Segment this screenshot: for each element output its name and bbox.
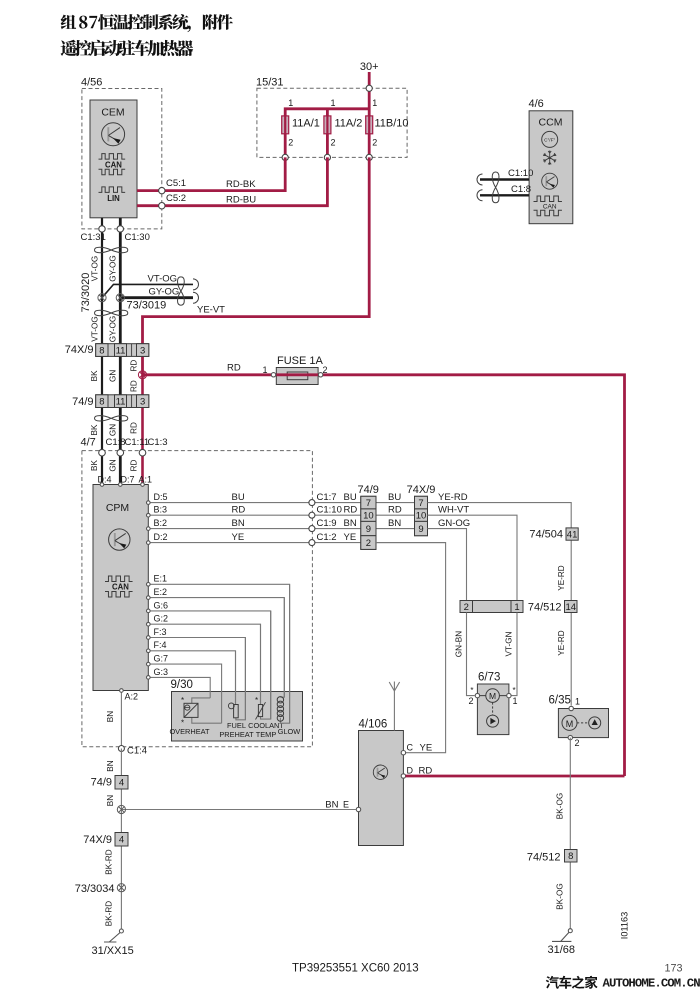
CCM CAN symbol xyxy=(534,196,562,202)
svg-text:G:7: G:7 xyxy=(154,654,169,664)
node C1:4 xyxy=(118,746,124,752)
wire sensor G:7 xyxy=(148,664,221,723)
svg-text:A:1: A:1 xyxy=(139,475,153,485)
wire BN signal from CPM pin B:2 xyxy=(148,528,414,530)
svg-text:C1:8: C1:8 xyxy=(511,184,531,195)
svg-text:4/56: 4/56 xyxy=(81,77,102,89)
svg-text:15/31: 15/31 xyxy=(256,77,284,89)
svg-text:BN: BN xyxy=(106,795,115,806)
svg-text:C1:7: C1:7 xyxy=(317,492,337,503)
svg-text:FUEL: FUEL xyxy=(227,721,246,730)
node C1:3 xyxy=(139,449,146,456)
svg-text:F:4: F:4 xyxy=(154,640,167,650)
svg-text:4/7: 4/7 xyxy=(81,437,96,449)
svg-text:1: 1 xyxy=(513,696,518,706)
svg-text:BN: BN xyxy=(325,800,338,811)
wire GY-OG branch xyxy=(120,296,193,299)
splice BN xyxy=(117,805,125,813)
svg-text:D:4: D:4 xyxy=(98,475,112,485)
wire BK-OG chain xyxy=(569,738,571,931)
node C5:2 xyxy=(159,203,165,209)
fuse 11A/2 xyxy=(324,116,331,134)
twist pair upper xyxy=(95,247,128,252)
CEM LIN symbol xyxy=(99,187,126,193)
svg-text:9/30: 9/30 xyxy=(171,679,193,691)
svg-text:C: C xyxy=(407,743,414,753)
svg-text:1: 1 xyxy=(262,365,267,375)
svg-text:11A/2: 11A/2 xyxy=(335,118,363,130)
svg-text:RD: RD xyxy=(388,505,402,516)
svg-text:E:2: E:2 xyxy=(154,587,168,597)
svg-text:CCM: CCM xyxy=(539,117,563,129)
svg-text:9: 9 xyxy=(366,524,371,535)
svg-text:C1:8: C1:8 xyxy=(106,437,126,448)
title line 2 xyxy=(61,40,77,56)
svg-text:GY-OG: GY-OG xyxy=(109,316,118,343)
svg-text:11B/10: 11B/10 xyxy=(375,118,409,130)
pump 6/73 pins xyxy=(475,693,479,697)
svg-text:2: 2 xyxy=(575,738,580,748)
svg-text:1: 1 xyxy=(288,98,293,108)
svg-text:C5:2: C5:2 xyxy=(166,193,186,204)
connector 74/512 pin 14 xyxy=(565,601,578,613)
glow element xyxy=(280,598,284,698)
twist pair bottom xyxy=(95,416,128,421)
svg-text:C1:10: C1:10 xyxy=(317,505,342,516)
wire BN to 4/106 E xyxy=(121,809,356,811)
node C1:9 xyxy=(309,526,315,532)
wire CCM twisted pair C1:10 xyxy=(480,178,529,180)
overheat switch xyxy=(192,698,210,703)
svg-text:M: M xyxy=(566,719,574,729)
node C1:8 xyxy=(99,449,106,456)
svg-text:2: 2 xyxy=(366,538,371,549)
connector box 4/56 dashed xyxy=(82,89,162,229)
svg-text:7: 7 xyxy=(366,498,371,509)
svg-text:D: D xyxy=(407,766,414,776)
svg-text:C1:9: C1:9 xyxy=(317,518,337,529)
ground 31/XX15 xyxy=(119,929,123,933)
CCM twisted pair twist xyxy=(492,172,499,203)
svg-text:YE-RD: YE-RD xyxy=(557,630,566,656)
svg-text:FUSE 1A: FUSE 1A xyxy=(277,355,324,367)
svg-text:G:2: G:2 xyxy=(154,614,169,624)
CPM top pins xyxy=(100,483,104,487)
connector 74/512 bar xyxy=(460,601,523,613)
svg-text:2: 2 xyxy=(468,696,473,706)
wire fuse top rail xyxy=(285,109,369,158)
wire RD-BK xyxy=(137,157,285,190)
svg-text:2: 2 xyxy=(288,138,293,148)
wire YE-RD xyxy=(428,503,572,706)
wire sensor F:4 xyxy=(148,651,235,705)
wire WH-VT xyxy=(428,515,518,600)
node C5:1 xyxy=(159,187,165,193)
svg-text:F:3: F:3 xyxy=(154,627,167,637)
svg-text:74/9: 74/9 xyxy=(72,396,93,408)
svg-text:C1:31: C1:31 xyxy=(81,232,106,243)
svg-text:I01163: I01163 xyxy=(620,912,630,939)
4/106 pin C xyxy=(401,751,405,755)
svg-text:CAN: CAN xyxy=(105,161,122,170)
svg-text:4: 4 xyxy=(119,835,124,846)
svg-text:BN: BN xyxy=(232,518,245,529)
fuse 11A/1 xyxy=(282,116,289,134)
svg-text:BK: BK xyxy=(90,460,99,471)
svg-text:31/XX15: 31/XX15 xyxy=(92,945,134,957)
wire YE signal to 4/106 xyxy=(376,543,446,753)
svg-text:RD: RD xyxy=(130,380,139,392)
svg-text:RD: RD xyxy=(130,360,139,372)
node C1:7 xyxy=(309,500,315,506)
control module CEM xyxy=(90,100,137,218)
svg-text:CAN: CAN xyxy=(543,203,557,210)
wire 30+ feed xyxy=(368,72,371,157)
svg-text:YE: YE xyxy=(232,532,245,543)
svg-text:C5:1: C5:1 xyxy=(166,178,186,189)
svg-text:CPM: CPM xyxy=(106,502,129,514)
svg-text:BK-RD: BK-RD xyxy=(105,901,114,927)
CEM transistor symbol xyxy=(102,123,125,146)
svg-text:10: 10 xyxy=(363,511,374,522)
splice fuse feed xyxy=(138,371,146,379)
svg-text:*: * xyxy=(513,686,516,695)
svg-text:*: * xyxy=(181,696,184,705)
svg-text:2: 2 xyxy=(372,138,377,148)
wire RD to 4/106 D xyxy=(406,775,625,778)
svg-text:RD-BU: RD-BU xyxy=(226,195,256,206)
svg-text:4/106: 4/106 xyxy=(359,719,388,731)
svg-text:C1:4: C1:4 xyxy=(127,746,147,757)
svg-text:VT-OG: VT-OG xyxy=(148,274,178,285)
svg-text:D:5: D:5 xyxy=(154,492,168,502)
svg-text:RD: RD xyxy=(232,505,246,516)
svg-text:74/512: 74/512 xyxy=(527,852,561,864)
svg-text:8: 8 xyxy=(99,345,104,356)
svg-text:GN: GN xyxy=(109,424,118,436)
svg-text:D:2: D:2 xyxy=(154,532,168,542)
svg-text:3: 3 xyxy=(140,397,145,408)
svg-text:*: * xyxy=(255,696,258,705)
wire RD signal from CPM pin B:3 xyxy=(148,514,414,516)
splice 73/3020 xyxy=(98,294,106,302)
node C1:30 xyxy=(117,226,123,232)
svg-text:2: 2 xyxy=(323,365,328,375)
fuse 11B/10 xyxy=(366,116,373,134)
svg-text:B:2: B:2 xyxy=(154,518,168,528)
wire GN-OG xyxy=(428,529,467,601)
svg-text:GLOW: GLOW xyxy=(278,727,301,736)
svg-text:GN-BN: GN-BN xyxy=(455,631,464,657)
svg-text:4: 4 xyxy=(119,778,124,789)
node C1:2 xyxy=(309,540,315,546)
svg-text:RD: RD xyxy=(130,460,139,472)
svg-text:YE-RD: YE-RD xyxy=(438,492,468,503)
svg-text:G:3: G:3 xyxy=(154,667,169,677)
wire GY-OG main xyxy=(119,218,122,485)
svg-text:74X/9: 74X/9 xyxy=(65,344,94,356)
twist pair lower xyxy=(95,310,128,315)
svg-text:BU: BU xyxy=(232,492,245,503)
svg-text:AUTOHOME.COM.CN: AUTOHOME.COM.CN xyxy=(603,977,700,990)
svg-text:C1:10: C1:10 xyxy=(508,168,533,179)
svg-text:GN-OG: GN-OG xyxy=(438,518,470,529)
svg-text:GN: GN xyxy=(109,370,118,382)
branch twist xyxy=(178,277,185,305)
fuse holder 15/31 dashed box xyxy=(257,88,407,157)
wire VT-OG main xyxy=(101,218,103,485)
svg-text:11: 11 xyxy=(116,345,126,356)
svg-text:1: 1 xyxy=(575,697,580,707)
wire sensor G:2 xyxy=(148,624,260,704)
node C1:11 xyxy=(117,449,124,456)
control module CPM xyxy=(93,485,148,691)
svg-text:OVERHEAT: OVERHEAT xyxy=(169,727,210,736)
svg-text:RD: RD xyxy=(130,422,139,434)
svg-text:M: M xyxy=(489,691,496,701)
svg-text:BK-OG: BK-OG xyxy=(556,883,565,909)
svg-text:74/512: 74/512 xyxy=(528,602,562,614)
svg-text:BN: BN xyxy=(388,518,401,529)
coolant temp sensor xyxy=(260,624,262,704)
svg-text:BK-OG: BK-OG xyxy=(556,793,565,819)
wire sensor E:1 xyxy=(148,584,289,723)
svg-text:BN: BN xyxy=(344,518,357,529)
svg-text:73/3019: 73/3019 xyxy=(127,300,167,312)
svg-text:BK: BK xyxy=(90,370,99,381)
wire YE-VT xyxy=(143,157,370,374)
motor 6/35 pins xyxy=(569,706,573,710)
wire RD-BU xyxy=(137,157,327,205)
svg-text:74/504: 74/504 xyxy=(529,529,563,541)
svg-text:73/3034: 73/3034 xyxy=(75,883,115,895)
svg-text:CAN: CAN xyxy=(112,583,129,592)
svg-text:RD: RD xyxy=(344,505,358,516)
fuel preheater element xyxy=(235,651,237,705)
CCM temperature symbol xyxy=(542,131,558,147)
svg-text:74X/9: 74X/9 xyxy=(407,484,436,496)
svg-text:YE-VT: YE-VT xyxy=(197,305,225,316)
ground 31/68 xyxy=(568,929,572,933)
CPM CAN symbol xyxy=(105,576,133,582)
svg-text:74X/9: 74X/9 xyxy=(83,834,112,846)
svg-text:VT-GN: VT-GN xyxy=(505,631,514,656)
svg-text:GN: GN xyxy=(109,459,118,471)
wire sensor G:3 xyxy=(148,677,210,698)
svg-text:31/68: 31/68 xyxy=(548,944,576,956)
svg-text:6/35: 6/35 xyxy=(549,695,571,707)
svg-text:173: 173 xyxy=(665,963,683,975)
svg-text:B:3: B:3 xyxy=(154,505,168,515)
svg-text:CEM: CEM xyxy=(101,107,124,119)
svg-text:7: 7 xyxy=(418,498,423,509)
svg-text:GY-OG: GY-OG xyxy=(149,287,180,298)
CPM pin A:2 wire BN xyxy=(120,691,122,749)
splice 73/3019 xyxy=(116,294,124,302)
svg-text:TP39253551 XC60 2013: TP39253551 XC60 2013 xyxy=(292,963,419,975)
svg-text:BN: BN xyxy=(106,711,115,722)
svg-text:74/9: 74/9 xyxy=(91,777,112,789)
svg-text:9: 9 xyxy=(418,524,423,535)
node C1:10 xyxy=(309,512,315,518)
svg-text:2: 2 xyxy=(331,138,336,148)
CCM transistor symbol xyxy=(542,173,558,189)
svg-text:GY-OG: GY-OG xyxy=(109,255,118,282)
CCM snowflake symbol xyxy=(543,151,556,165)
svg-text:C1:30: C1:30 xyxy=(125,232,150,243)
svg-text:C1:11: C1:11 xyxy=(125,437,150,448)
splice 73/3034 xyxy=(117,884,125,892)
svg-text:TEMP: TEMP xyxy=(256,730,277,739)
svg-text:C1:2: C1:2 xyxy=(317,532,337,543)
svg-text:YE: YE xyxy=(420,743,433,754)
svg-text:11A/1: 11A/1 xyxy=(292,118,320,130)
node C1:31 xyxy=(99,226,105,232)
svg-text:A:2: A:2 xyxy=(125,692,139,702)
CEM CAN symbol xyxy=(99,154,126,160)
svg-text:14: 14 xyxy=(565,602,576,613)
svg-text:PREHEAT: PREHEAT xyxy=(219,730,254,739)
wire VT-OG branch xyxy=(102,284,193,297)
4/106 pin D xyxy=(401,774,405,778)
svg-text:73/3020: 73/3020 xyxy=(80,273,92,313)
wire VT-GN xyxy=(512,613,518,696)
svg-text:10: 10 xyxy=(416,511,427,522)
wire CCM twisted pair C1:8 xyxy=(480,194,529,196)
wire sensor F:3 xyxy=(148,638,245,720)
wire RD fuse feed xyxy=(143,373,277,376)
svg-text:RD-BK: RD-BK xyxy=(226,179,256,190)
svg-text:3: 3 xyxy=(140,345,145,356)
svg-text:6/73: 6/73 xyxy=(478,672,500,684)
svg-text:E: E xyxy=(343,800,349,810)
svg-text:8: 8 xyxy=(99,397,104,408)
svg-text:E:1: E:1 xyxy=(154,574,168,584)
wire sensor E:2 xyxy=(148,598,284,698)
svg-text:74/9: 74/9 xyxy=(357,484,378,496)
svg-text:*: * xyxy=(470,686,473,695)
svg-text:BK: BK xyxy=(90,424,99,435)
antenna xyxy=(393,691,395,731)
CPM transistor symbol xyxy=(109,529,130,550)
svg-text:BN: BN xyxy=(106,760,115,771)
4/106 pin E xyxy=(356,807,360,811)
wire GN-BN xyxy=(467,613,475,696)
svg-text:G:6: G:6 xyxy=(154,600,169,610)
wire sensor G:6 xyxy=(148,611,270,719)
svg-text:BK-RD: BK-RD xyxy=(105,849,114,875)
svg-text:41: 41 xyxy=(567,529,578,540)
wire BN down-left chain xyxy=(120,749,122,932)
svg-text:BU: BU xyxy=(344,492,357,503)
svg-text:4/6: 4/6 xyxy=(529,98,544,110)
svg-text:YE: YE xyxy=(344,532,357,543)
title line 1 xyxy=(61,15,76,30)
svg-text:11: 11 xyxy=(116,397,126,408)
4/106 transistor symbol xyxy=(373,765,387,779)
wire BU signal from CPM pin D:5 xyxy=(148,502,414,504)
svg-text:YE-RD: YE-RD xyxy=(557,565,566,591)
svg-text:30+: 30+ xyxy=(360,61,379,73)
wire RD fuse output xyxy=(318,375,624,776)
wire YE signal from CPM pin D:2 xyxy=(148,542,445,544)
svg-text:C1:3: C1:3 xyxy=(148,437,168,448)
svg-text:8: 8 xyxy=(568,851,573,862)
svg-text:WH-VT: WH-VT xyxy=(438,505,469,516)
wire RD down to CPM xyxy=(141,375,144,485)
watermark autohome xyxy=(546,976,559,989)
svg-text:VT-OG: VT-OG xyxy=(90,316,99,341)
svg-text:1: 1 xyxy=(331,98,336,108)
svg-text:1: 1 xyxy=(514,602,519,613)
node fuse outputs xyxy=(282,154,288,160)
svg-text:C°/F°: C°/F° xyxy=(544,138,555,143)
svg-text:1: 1 xyxy=(372,98,377,108)
svg-text:LIN: LIN xyxy=(107,194,120,203)
svg-text:RD: RD xyxy=(227,363,241,374)
svg-text:D:7: D:7 xyxy=(121,475,135,485)
svg-text:BU: BU xyxy=(388,492,401,503)
svg-text:2: 2 xyxy=(464,602,469,613)
